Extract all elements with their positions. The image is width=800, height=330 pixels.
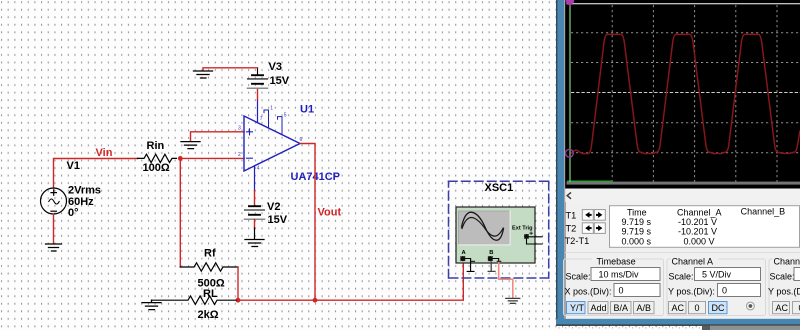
T1 arrow buttons (582, 210, 593, 221)
terminal B plus stub (488, 262, 495, 271)
wire + input to ground (191, 132, 245, 141)
ground (RL left) (142, 300, 161, 309)
svg-text:100Ω: 100Ω (143, 162, 170, 174)
pin 4 stub to V2 (254, 166, 256, 191)
graticule center horizontal line (571, 92, 800, 94)
svg-text:T2-T1: T2-T1 (565, 236, 590, 246)
graticule vertical lines (612, 5, 777, 182)
battery V3 (248, 68, 268, 89)
svg-text:1: 1 (270, 106, 273, 112)
op-amp + marker (247, 129, 253, 135)
svg-text:Y pos.(Div):: Y pos.(Div): (668, 286, 715, 296)
svg-text:0: 0 (722, 285, 727, 295)
button Add (588, 302, 608, 314)
XSC1 selection dashed box (449, 181, 549, 278)
svg-text:Y pos.(Div):: Y pos.(Div): (768, 286, 800, 296)
Channel A Scale input (695, 268, 761, 281)
terminal B lead to wire (493, 259, 499, 264)
svg-text:0°: 0° (68, 207, 79, 219)
Timebase Scale input (591, 268, 660, 281)
ground (below V1) (46, 244, 62, 251)
Channel A Y pos input (718, 284, 761, 297)
svg-text:Scale:: Scale: (566, 271, 591, 281)
svg-text:Time: Time (627, 207, 647, 217)
battery V2 (245, 206, 265, 219)
wire Rf down to bottom rail (237, 267, 239, 300)
svg-text:4: 4 (257, 166, 260, 172)
pin 5 stub (offset null) (278, 117, 283, 135)
readout table white box (610, 206, 800, 248)
terminal A minus stub (465, 259, 474, 272)
svg-text:Channel A: Channel A (672, 256, 714, 266)
wire output of op-amp (300, 144, 315, 301)
terminal A minus mark (471, 260, 475, 262)
svg-text:T2: T2 (566, 224, 577, 234)
button Y/T (selected) (567, 302, 586, 314)
node junction at inverting input column (178, 156, 183, 161)
terminal B minus mark (497, 260, 501, 262)
svg-text:6: 6 (300, 137, 303, 143)
icon sine curve 1 (462, 212, 504, 240)
svg-text:Channel_A: Channel_A (677, 207, 722, 217)
green baseline segment (567, 180, 613, 182)
svg-text:RL: RL (203, 288, 218, 300)
T2 arrow buttons (582, 223, 593, 234)
wire junction to op-amp inverting input (180, 157, 244, 159)
oscilloscope window base panel (556, 0, 800, 324)
pin 1 stub (offset null) (264, 110, 269, 128)
AC source V1 (41, 188, 67, 214)
background gray window corner (702, 326, 800, 330)
window left border strip (556, 0, 558, 324)
Timebase X pos input (614, 284, 660, 297)
Channel B group box (769, 259, 800, 316)
Channel A group box (667, 259, 766, 316)
trace start marker (purple circle) (566, 149, 574, 157)
scrollbar left arrow (567, 192, 571, 198)
oscilloscope icon screen (459, 211, 510, 244)
svg-text:T1: T1 (566, 211, 577, 221)
radio indicator (747, 302, 755, 310)
svg-text:0: 0 (619, 285, 624, 295)
svg-text:XSC1: XSC1 (485, 182, 514, 194)
scope screen black area (565, 0, 800, 189)
svg-text:Rf: Rf (204, 248, 216, 260)
bottom rail wire to scope A (238, 262, 463, 301)
svg-text:Scale:: Scale: (669, 271, 694, 281)
svg-text:Timebase: Timebase (597, 256, 636, 266)
channel A waveform trace (570, 34, 800, 153)
svg-text:10 ms/Div: 10 ms/Div (599, 269, 640, 279)
button AC (669, 302, 687, 314)
terminal B (488, 256, 493, 261)
svg-text:2: 2 (238, 152, 241, 158)
screen top bevel line (567, 3, 800, 4)
ground (op-amp + input) (181, 142, 200, 149)
svg-text:-10.201 V: -10.201 V (678, 227, 717, 237)
scrollbar under screen (565, 189, 800, 203)
wire V2 to ground (254, 219, 256, 228)
wire V3 to ground (203, 68, 258, 71)
ground (V2) (245, 240, 264, 247)
button 0 (channel B, clipped) (793, 302, 800, 314)
button DC (selected) (709, 302, 728, 314)
svg-text:0.000 V: 0.000 V (683, 236, 714, 246)
svg-text:5: 5 (284, 113, 287, 119)
svg-text:AC: AC (672, 303, 685, 313)
svg-text:9.719 s: 9.719 s (621, 217, 651, 227)
svg-text:7: 7 (260, 116, 263, 122)
svg-text:-10.201 V: -10.201 V (678, 217, 717, 227)
svg-text:Add: Add (591, 303, 607, 313)
svg-text:Y/T: Y/T (570, 303, 585, 313)
svg-text:2Vrms: 2Vrms (68, 185, 101, 197)
ext trig stubs (527, 237, 543, 244)
terminal A (460, 256, 465, 261)
wire V3 red segment into pin7 (257, 88, 259, 99)
resistor RL (152, 296, 237, 304)
svg-text:Rin: Rin (147, 140, 165, 152)
icon sine curve 2 (462, 218, 503, 237)
Timebase group box (564, 259, 664, 316)
op-amp U1 triangle (244, 116, 300, 171)
node junction Vout/bottom rail (313, 298, 318, 303)
ext trig plus mark (530, 232, 533, 235)
svg-text:Scale:: Scale: (770, 271, 795, 281)
graticule horizontal lines (571, 33, 800, 153)
svg-text:15V: 15V (270, 75, 290, 87)
svg-text:V3: V3 (269, 61, 282, 73)
svg-text:DC: DC (712, 303, 725, 313)
button A/B (634, 302, 655, 314)
svg-text:V2: V2 (267, 201, 280, 213)
button 0 (689, 302, 706, 314)
screen bottom border line (567, 182, 800, 185)
svg-text:60Hz: 60Hz (68, 196, 94, 208)
wire scope B to ground (salmon) (499, 263, 513, 298)
wire V1 top to Rin (54, 159, 138, 189)
svg-text:Channel B: Channel B (774, 256, 800, 266)
svg-text:A/B: A/B (637, 303, 652, 313)
oscilloscope icon body (456, 207, 535, 263)
svg-text:Channel_B: Channel_B (741, 207, 786, 217)
svg-text:AC: AC (776, 303, 789, 313)
svg-text:15V: 15V (268, 214, 288, 226)
button AC (channel B) (773, 302, 790, 314)
svg-text:B: B (489, 250, 493, 256)
wire junction down to Rf (179, 158, 181, 267)
dot row under window bottom (559, 327, 700, 329)
svg-text:X pos.(Div):: X pos.(Div): (565, 286, 612, 296)
svg-text:Ext Trig: Ext Trig (512, 226, 533, 232)
wire V1 bottom to ground (53, 214, 55, 244)
ext trig terminal (524, 234, 529, 239)
svg-text:5 V/Div: 5 V/Div (702, 269, 732, 279)
cursor handle (top purple marker) (566, 0, 574, 6)
ground (V3) (194, 71, 213, 78)
svg-text:9.719 s: 9.719 s (621, 227, 651, 237)
svg-text:V1: V1 (67, 160, 80, 172)
svg-text:0.000 s: 0.000 s (621, 236, 651, 246)
svg-text:2kΩ: 2kΩ (198, 309, 219, 321)
svg-text:Vin: Vin (96, 147, 113, 159)
separator line (565, 252, 800, 254)
resistor Rf (180, 263, 238, 271)
resistor Rin (138, 154, 177, 162)
op-amp - marker (247, 157, 253, 159)
svg-text:3: 3 (238, 126, 241, 132)
svg-text:B/A: B/A (614, 303, 629, 313)
node junction Rf/bottom rail (236, 298, 241, 303)
svg-text:0: 0 (695, 303, 700, 313)
wire pin4 red segment to V2 (254, 191, 256, 206)
cursor T1 green line (569, 5, 571, 182)
pin 7 stub to V3 (257, 100, 259, 123)
window bottom border (556, 319, 800, 324)
Channel B Scale input (794, 268, 800, 281)
svg-text:U1: U1 (300, 104, 314, 116)
ground (scope B) (506, 298, 520, 303)
button B/A (611, 302, 632, 314)
svg-text:Vout: Vout (318, 207, 342, 219)
